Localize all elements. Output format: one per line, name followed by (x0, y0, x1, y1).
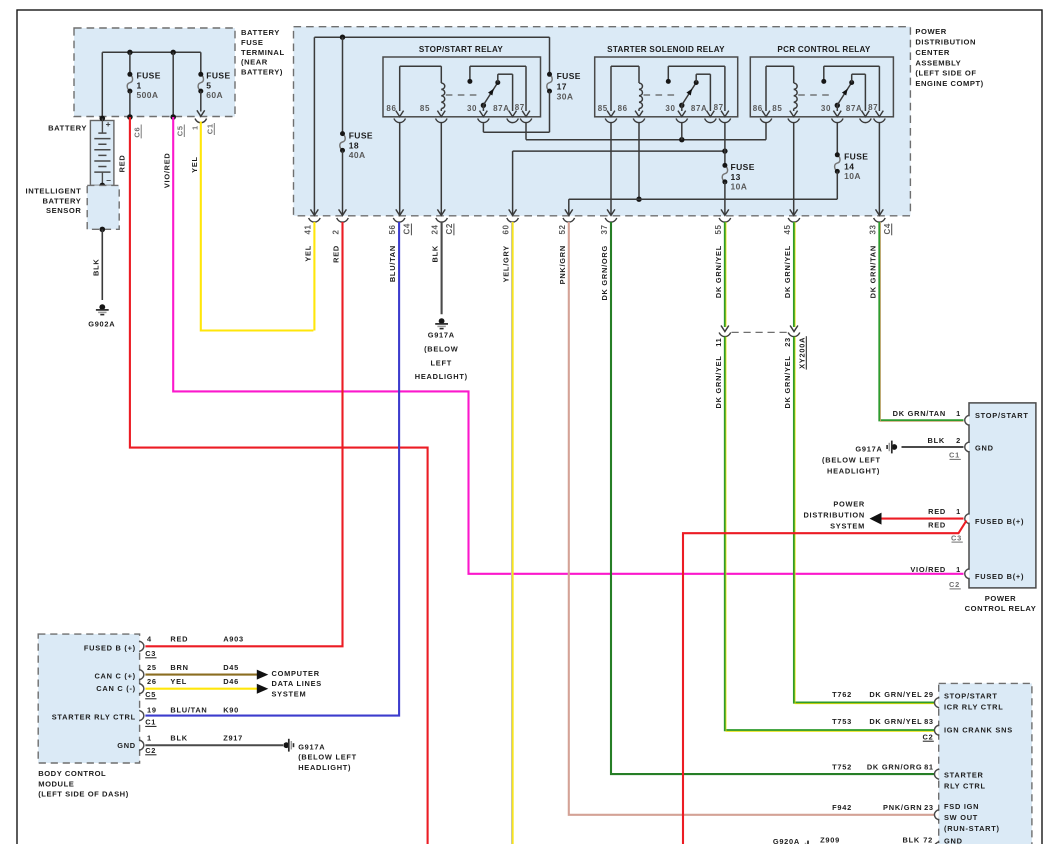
svg-text:1: 1 (956, 565, 961, 574)
svg-text:ASSEMBLY: ASSEMBLY (915, 58, 961, 67)
svg-text:85: 85 (598, 104, 608, 113)
connector pin arc (937, 811, 938, 819)
inline connector XY200A pin 11 (721, 326, 729, 332)
svg-text:SYSTEM: SYSTEM (272, 690, 307, 699)
ground G917A (439, 318, 445, 324)
wire: starter 85 to pin 37 (610, 123, 612, 216)
svg-text:87: 87 (714, 103, 724, 112)
svg-text:HEADLIGHT): HEADLIGHT) (298, 763, 351, 772)
svg-text:SYSTEM: SYSTEM (830, 521, 865, 530)
wire: VIO/RED feed inside BFT (172, 52, 174, 117)
starter control module connector box (dashed) (939, 683, 1032, 844)
svg-text:33: 33 (869, 224, 878, 234)
pin C1-1 arrow (197, 110, 205, 116)
PDC pin 41 exit (309, 218, 321, 222)
svg-text:PNK/GRN: PNK/GRN (558, 245, 567, 284)
PCR control relay K3 coil circuit (765, 66, 767, 111)
svg-text:55: 55 (714, 224, 723, 234)
wire: drop through fuse 18 to pin 2 (342, 37, 344, 133)
svg-text:VIO/RED: VIO/RED (163, 153, 172, 189)
svg-text:C1: C1 (145, 718, 156, 727)
svg-text:STARTER SOLENOID RELAY: STARTER SOLENOID RELAY (607, 45, 725, 54)
svg-text:10A: 10A (731, 182, 748, 192)
svg-text:STOP/START: STOP/START (944, 692, 998, 701)
svg-text:(BELOW LEFT: (BELOW LEFT (822, 455, 881, 464)
svg-text:23: 23 (924, 803, 934, 812)
wire DK GRN/YEL 23 to stop/start ICR pin 29 (794, 337, 935, 703)
svg-text:DK GRN/ORG: DK GRN/ORG (867, 763, 923, 772)
svg-text:F942: F942 (832, 803, 852, 812)
svg-text:BLK: BLK (170, 734, 187, 743)
svg-text:86: 86 (386, 104, 396, 113)
svg-text:C2: C2 (923, 733, 934, 742)
PDC pin 37 exit (605, 218, 617, 222)
svg-text:BLK: BLK (928, 436, 945, 445)
svg-text:COMPUTER: COMPUTER (272, 669, 320, 678)
svg-text:IGN CRANK SNS: IGN CRANK SNS (944, 726, 1013, 735)
svg-text:C4: C4 (403, 223, 412, 234)
wire: stop/start 85 to pin 24 (440, 123, 442, 216)
svg-text:DK GRN/YEL: DK GRN/YEL (783, 245, 792, 298)
svg-text:72: 72 (923, 835, 933, 844)
svg-text:C1: C1 (949, 451, 960, 460)
svg-text:56: 56 (388, 224, 397, 234)
svg-text:D46: D46 (223, 677, 239, 686)
connector pin arc (968, 416, 969, 424)
svg-text:FUSE: FUSE (206, 71, 230, 81)
svg-text:SENSOR: SENSOR (46, 206, 81, 215)
svg-text:19: 19 (147, 706, 157, 715)
stop/start relay K1 coil circuit (399, 66, 401, 111)
svg-text:PCR CONTROL RELAY: PCR CONTROL RELAY (777, 45, 871, 54)
wire BLU/TAN pin 56 to BCM pin 19 (145, 222, 399, 716)
svg-text:STARTER: STARTER (944, 771, 984, 780)
svg-text:POWER: POWER (833, 499, 865, 508)
node: C5 exit (170, 114, 176, 120)
svg-text:PNK/GRN: PNK/GRN (883, 803, 922, 812)
label underline (453, 224, 455, 236)
svg-text:Z909: Z909 (820, 835, 840, 844)
svg-text:30: 30 (665, 104, 675, 113)
svg-text:BLK: BLK (431, 245, 440, 262)
wire RED from below to fused B(+) C3 (683, 521, 967, 844)
starter solenoid relay K2 switch (667, 66, 669, 79)
svg-text:ICR RLY CTRL: ICR RLY CTRL (944, 703, 1004, 712)
svg-text:C1: C1 (206, 123, 215, 134)
svg-text:CONTROL RELAY: CONTROL RELAY (965, 604, 1037, 613)
svg-text:STOP/START: STOP/START (975, 411, 1029, 420)
wire YEL C1 to PDC pin 41 (201, 122, 314, 331)
node: C6 exit (127, 114, 133, 120)
svg-text:STARTER RLY CTRL: STARTER RLY CTRL (52, 712, 136, 721)
svg-text:T752: T752 (832, 763, 852, 772)
svg-text:DK GRN/ORG: DK GRN/ORG (600, 245, 609, 301)
svg-text:BLK: BLK (903, 835, 920, 844)
body control module box (38, 634, 139, 763)
fuse F14 10A (835, 155, 840, 172)
svg-text:(NEAR: (NEAR (241, 58, 268, 67)
svg-text:YEL: YEL (190, 156, 199, 173)
PDC pin 33 exit (874, 218, 886, 222)
svg-text:(BELOW: (BELOW (424, 345, 458, 354)
svg-text:23: 23 (783, 337, 792, 347)
wire DK GRN/TAN pin 33 to power control relay pin 1 (879, 222, 963, 420)
svg-text:C2: C2 (949, 580, 960, 589)
svg-text:10A: 10A (844, 171, 861, 181)
svg-text:FUSE: FUSE (844, 152, 868, 162)
PDC pin 56 exit (393, 218, 405, 222)
svg-text:DK GRN/YEL: DK GRN/YEL (714, 355, 723, 408)
node: rail junction fuse 18 (340, 35, 345, 40)
svg-text:DISTRIBUTION: DISTRIBUTION (915, 38, 976, 47)
wire: rail to fuse 17 (549, 37, 551, 74)
svg-text:FUSED B(+): FUSED B(+) (975, 572, 1024, 581)
svg-text:BODY CONTROL: BODY CONTROL (38, 769, 106, 778)
svg-text:14: 14 (844, 161, 854, 171)
svg-text:FUSED B(+): FUSED B(+) (975, 517, 1024, 526)
svg-text:500A: 500A (137, 90, 159, 100)
svg-text:(BELOW LEFT: (BELOW LEFT (298, 753, 357, 762)
BCM pin arc (140, 685, 141, 693)
svg-text:BRN: BRN (170, 663, 188, 672)
fuse F13 10A (722, 165, 727, 182)
svg-text:C3: C3 (145, 649, 156, 658)
wire: fuse 17 to stop/start relay pin 30 (549, 91, 551, 132)
wire VIO/RED C5 to power control relay C2 (173, 117, 963, 574)
label underline (410, 224, 412, 236)
svg-text:2: 2 (332, 229, 341, 234)
svg-text:17: 17 (557, 81, 567, 91)
wire: PCR 85 to pin 45 (793, 123, 795, 216)
svg-text:13: 13 (731, 172, 741, 182)
svg-text:FSD IGN: FSD IGN (944, 802, 979, 811)
power control relay connector box (969, 403, 1036, 588)
svg-text:26: 26 (147, 677, 157, 686)
fuse F18 40A (340, 134, 345, 151)
dashed connector link (732, 331, 788, 333)
wire DK GRN/ORG pin 37 to starter rly ctrl pin 81 (611, 222, 935, 774)
svg-text:+: + (106, 119, 111, 129)
wire RED to fused B(+) C3 (882, 518, 964, 520)
svg-text:MODULE: MODULE (38, 779, 74, 788)
svg-text:1: 1 (956, 409, 961, 418)
svg-text:SW OUT: SW OUT (944, 813, 978, 822)
svg-text:60A: 60A (206, 90, 223, 100)
wire YEL pin 41 (313, 222, 315, 331)
svg-text:83: 83 (924, 717, 934, 726)
svg-text:INTELLIGENT: INTELLIGENT (26, 187, 82, 196)
wire: stop/start 86 to pin 56 (399, 123, 401, 216)
node: junction at starter relay 30 (679, 137, 684, 142)
fuse F1 500A (127, 74, 132, 91)
svg-text:30: 30 (467, 104, 477, 113)
svg-text:C6: C6 (133, 127, 142, 138)
svg-text:C2: C2 (145, 746, 156, 755)
svg-text:DATA LINES: DATA LINES (272, 679, 322, 688)
connector pin arc (968, 515, 969, 523)
ground G902A (99, 304, 105, 310)
svg-text:1: 1 (956, 507, 961, 516)
label underline (891, 224, 893, 236)
svg-text:G917A: G917A (855, 444, 882, 453)
svg-text:A903: A903 (223, 635, 244, 644)
wire: starter 87 through fuse 13 to pin 55 (724, 123, 726, 166)
svg-text:85: 85 (420, 104, 430, 113)
wire: BFT internal feed rail (102, 51, 201, 53)
svg-text:1: 1 (190, 125, 199, 130)
svg-text:C4: C4 (883, 223, 892, 234)
intelligent battery sensor box (87, 185, 119, 229)
PDC pin 45 exit (788, 218, 800, 222)
wire: PCR 30 through fuse 14 (836, 123, 838, 155)
svg-text:FUSE: FUSE (731, 162, 755, 172)
svg-text:RED: RED (332, 245, 341, 263)
svg-text:G920A: G920A (773, 837, 800, 844)
svg-text:–: – (106, 175, 111, 185)
node: junction fuse 13 top (722, 148, 727, 153)
starter solenoid relay K2 linkage (dashed) (644, 94, 677, 96)
wire PNK/GRN pin 52 to FSD IGN pin 23 (569, 222, 935, 815)
svg-text:RED: RED (928, 520, 946, 529)
node: rail junction to fuse 1 (127, 50, 132, 55)
svg-text:87A: 87A (691, 104, 707, 113)
wire RED pin 2 to BCM pin 4 (145, 222, 342, 646)
svg-text:RLY CTRL: RLY CTRL (944, 782, 986, 791)
svg-text:BLU/TAN: BLU/TAN (388, 245, 397, 282)
wire: PCR 87 to pin 33 (878, 123, 880, 216)
PDC pin 24 exit (436, 218, 448, 222)
svg-text:YEL: YEL (304, 245, 313, 262)
svg-text:DK GRN/YEL: DK GRN/YEL (869, 690, 922, 699)
svg-text:29: 29 (924, 690, 934, 699)
wire RED battery C6 to BCM fused B(+) branch (130, 117, 428, 844)
svg-text:C5: C5 (176, 125, 185, 136)
wire: stop/start 87 to starter 30 / PCR 86 (525, 123, 527, 140)
connector pin arc (968, 443, 969, 451)
svg-text:HEADLIGHT): HEADLIGHT) (415, 372, 468, 381)
svg-text:40A: 40A (349, 150, 366, 160)
svg-text:BLU/TAN: BLU/TAN (170, 706, 207, 715)
connector pin arc (937, 843, 938, 844)
svg-text:DK GRN/TAN: DK GRN/TAN (869, 245, 878, 298)
BCM pin arc (140, 741, 141, 749)
svg-text:30: 30 (821, 104, 831, 113)
svg-text:41: 41 (304, 224, 313, 234)
svg-text:(LEFT SIDE OF DASH): (LEFT SIDE OF DASH) (38, 790, 129, 799)
svg-text:ENGINE COMPT): ENGINE COMPT) (915, 79, 983, 88)
svg-text:TERMINAL: TERMINAL (241, 48, 285, 57)
node: junction on pin-52 rail (636, 197, 641, 202)
BCM pin arc (140, 642, 141, 650)
svg-text:1: 1 (147, 734, 152, 743)
svg-text:DK GRN/YEL: DK GRN/YEL (783, 355, 792, 408)
stop/start relay K1 linkage (dashed) (446, 94, 478, 96)
BCM pin arc (140, 671, 141, 679)
wire: PDC top feed rail (314, 36, 549, 38)
off-page arrow (power distribution system) (870, 513, 882, 525)
svg-text:DISTRIBUTION: DISTRIBUTION (803, 510, 865, 519)
svg-text:45: 45 (783, 224, 792, 234)
svg-text:FUSE: FUSE (137, 71, 161, 81)
svg-text:GND: GND (975, 443, 994, 452)
svg-text:YEL: YEL (170, 677, 187, 686)
svg-text:25: 25 (147, 663, 157, 672)
svg-text:BATTERY: BATTERY (48, 123, 87, 132)
PDC pin 2 exit (337, 218, 349, 222)
fuse F5 60A (198, 74, 203, 91)
svg-text:K90: K90 (223, 706, 239, 715)
svg-text:FUSED B (+): FUSED B (+) (84, 643, 136, 652)
wire BLK pin 24 to G917A (441, 222, 443, 314)
fuse F17 30A (547, 74, 552, 91)
svg-text:52: 52 (558, 224, 567, 234)
svg-text:11: 11 (714, 337, 723, 346)
svg-text:1: 1 (137, 80, 142, 90)
svg-text:87: 87 (868, 103, 878, 112)
svg-text:POWER: POWER (915, 27, 946, 36)
svg-text:FUSE: FUSE (557, 71, 581, 81)
PDC pin 60 exit (507, 218, 519, 222)
svg-text:BATTERY): BATTERY) (241, 67, 283, 76)
ground G917A (891, 444, 897, 450)
svg-text:30A: 30A (557, 92, 574, 102)
svg-text:5: 5 (206, 80, 211, 90)
svg-text:60: 60 (502, 224, 511, 234)
svg-text:4: 4 (147, 635, 152, 644)
connector pin arc (937, 726, 938, 734)
wire DK GRN/YEL pin 45 upper (793, 222, 795, 327)
svg-text:GND: GND (117, 741, 136, 750)
label C6 underline (140, 125, 142, 139)
svg-text:18: 18 (349, 140, 359, 150)
connector pin arc (968, 570, 969, 578)
svg-text:D45: D45 (223, 663, 239, 672)
svg-text:81: 81 (924, 763, 934, 772)
svg-text:37: 37 (600, 224, 609, 234)
svg-text:86: 86 (618, 104, 628, 113)
svg-text:DK GRN/YEL: DK GRN/YEL (869, 717, 922, 726)
svg-text:FUSE: FUSE (241, 38, 263, 47)
svg-text:C2: C2 (445, 223, 454, 234)
svg-text:87A: 87A (493, 104, 509, 113)
svg-text:C5: C5 (145, 690, 156, 699)
connector pin arc (937, 770, 938, 778)
svg-text:BATTERY: BATTERY (241, 28, 280, 37)
starter solenoid relay K2 coil circuit (610, 66, 612, 111)
svg-text:BLK: BLK (92, 259, 101, 276)
wire: drop to pin 41 (313, 37, 315, 215)
svg-text:HEADLIGHT): HEADLIGHT) (827, 466, 880, 475)
svg-text:RED: RED (118, 155, 127, 173)
svg-text:C3: C3 (951, 533, 962, 542)
svg-text:GND: GND (944, 837, 963, 844)
svg-text:BATTERY: BATTERY (43, 196, 82, 205)
svg-text:FUSE: FUSE (349, 131, 373, 141)
svg-text:DK GRN/YEL: DK GRN/YEL (714, 245, 723, 298)
PCR control relay K3 switch (823, 66, 825, 79)
PCR control relay K3 linkage (dashed) (798, 94, 832, 96)
svg-text:RED: RED (170, 635, 188, 644)
svg-text:VIO/RED: VIO/RED (910, 565, 946, 574)
battery fuse terminal box (74, 28, 235, 117)
svg-text:LEFT: LEFT (431, 358, 452, 367)
wire DK GRN/YEL 11 to IGN CRANK SNS pin 83 (725, 337, 935, 731)
power distribution center assembly box (294, 27, 911, 216)
svg-text:STOP/START RELAY: STOP/START RELAY (419, 45, 504, 54)
wire BLK battery sensor to G902A (101, 229, 103, 300)
svg-text:CENTER: CENTER (915, 48, 950, 57)
svg-text:G902A: G902A (88, 319, 115, 328)
svg-text:CAN C (-): CAN C (-) (96, 684, 136, 693)
node: rail junction to C5 (171, 50, 176, 55)
svg-text:RED: RED (928, 507, 946, 516)
svg-text:CAN C (+): CAN C (+) (94, 672, 135, 681)
svg-text:(RUN-START): (RUN-START) (944, 824, 1000, 833)
wire: rail pin 52 / fuse 14 (569, 198, 838, 200)
svg-text:24: 24 (431, 224, 440, 234)
svg-text:87A: 87A (846, 104, 862, 113)
svg-text:Z917: Z917 (223, 734, 243, 743)
PDC pin 55 exit (719, 218, 731, 222)
wire: feed to pin 60 (512, 151, 514, 215)
svg-text:87: 87 (515, 103, 525, 112)
PDC pin 52 exit (563, 218, 575, 222)
ground G917A (283, 742, 289, 748)
svg-text:T762: T762 (832, 690, 852, 699)
BCM pin arc (140, 712, 141, 720)
stop/start relay K1 switch (469, 66, 471, 79)
svg-text:DK GRN/TAN: DK GRN/TAN (893, 409, 946, 418)
svg-text:POWER: POWER (985, 594, 1016, 603)
svg-text:T753: T753 (832, 717, 852, 726)
wire YEL/GRY pin 60 (512, 222, 514, 844)
svg-text:XY200A: XY200A (798, 337, 807, 369)
svg-text:86: 86 (753, 104, 763, 113)
wire DK GRN/YEL pin 55 upper (724, 222, 726, 327)
svg-text:G917A: G917A (428, 331, 455, 340)
wire: starter 86 to pin-52 rail (638, 123, 640, 200)
svg-text:(LEFT SIDE OF: (LEFT SIDE OF (915, 69, 976, 78)
svg-text:85: 85 (772, 104, 782, 113)
svg-text:2: 2 (956, 436, 961, 445)
svg-text:G917A: G917A (298, 742, 325, 751)
inline connector XY200A pin 23 (790, 326, 798, 332)
wire BLK to G917A (power control relay GND) (902, 446, 964, 448)
connector pin arc (937, 699, 938, 707)
svg-text:YEL/GRY: YEL/GRY (502, 245, 511, 282)
